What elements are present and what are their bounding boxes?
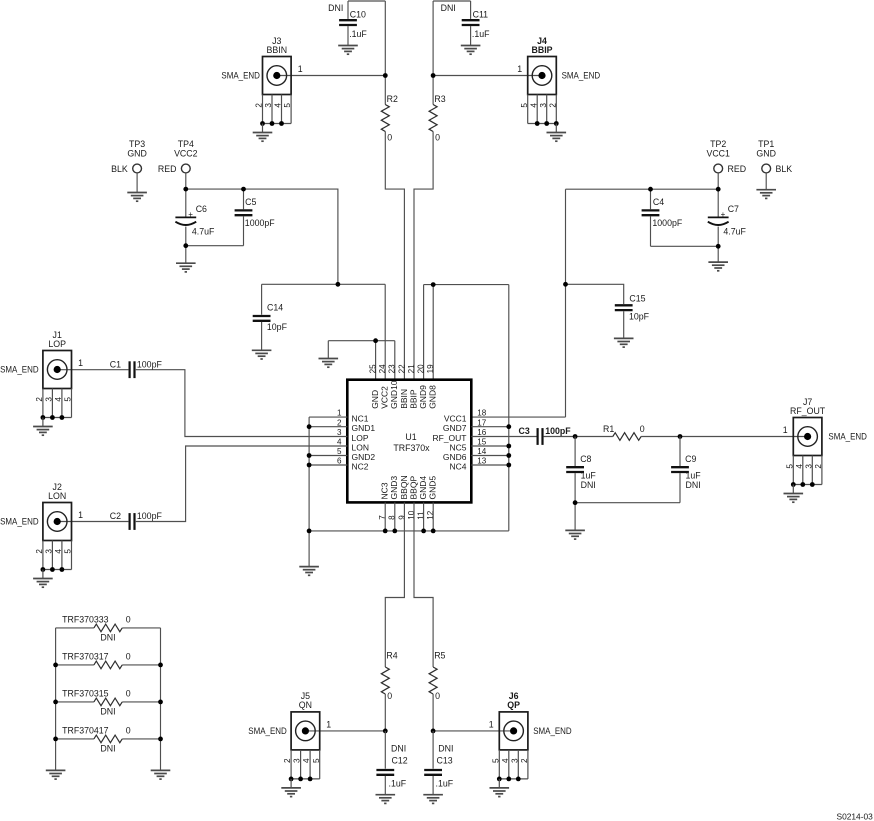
svg-text:BBQN: BBQN	[399, 475, 409, 499]
svg-text:4: 4	[795, 464, 804, 469]
svg-text:5: 5	[64, 549, 73, 554]
svg-text:2: 2	[35, 397, 44, 402]
svg-text:4.7uF: 4.7uF	[723, 226, 746, 236]
resistor TRF370317 (0 ohm)	[56, 652, 161, 669]
resistor TRF370315 (0 ohm DNI)	[56, 689, 161, 717]
connector J1 (LOP SMA)	[0, 330, 83, 435]
svg-text:C3: C3	[519, 426, 530, 436]
wire net BBIP	[433, 0, 471, 2]
svg-text:BBIN: BBIN	[267, 45, 288, 55]
wire GND pins 19,20	[424, 284, 509, 286]
wire C8/C9 to ground	[575, 502, 680, 504]
svg-text:RED: RED	[728, 164, 747, 174]
svg-text:DNI: DNI	[100, 706, 115, 716]
capacitor C9 (1uF DNI)	[671, 437, 701, 503]
svg-text:QP: QP	[507, 700, 520, 710]
svg-text:1: 1	[337, 409, 342, 418]
svg-text:2: 2	[255, 103, 264, 108]
svg-text:0: 0	[387, 133, 392, 143]
svg-text:C12: C12	[392, 756, 408, 766]
svg-text:23: 23	[388, 364, 397, 374]
svg-text:1uF: 1uF	[581, 471, 597, 481]
svg-text:+: +	[721, 210, 726, 219]
svg-text:RF_OUT: RF_OUT	[433, 433, 467, 443]
svg-text:5: 5	[785, 464, 794, 469]
wire resistor bank rails	[55, 628, 57, 770]
wire net LON	[57, 521, 128, 523]
svg-text:4: 4	[54, 397, 63, 402]
svg-text:C4: C4	[653, 197, 664, 207]
svg-text:.1uF: .1uF	[349, 29, 367, 39]
junction pin19	[431, 282, 436, 287]
junction pin25	[373, 338, 378, 343]
wire net VCC2	[185, 173, 187, 189]
svg-text:4: 4	[337, 438, 342, 447]
connector J3 (BBIN SMA)	[221, 36, 302, 141]
svg-text:RF_OUT: RF_OUT	[790, 406, 826, 416]
svg-text:1: 1	[783, 425, 788, 435]
svg-text:DNI: DNI	[441, 3, 456, 13]
svg-text:20: 20	[417, 364, 426, 374]
svg-text:NC4: NC4	[449, 461, 466, 471]
svg-text:1: 1	[298, 64, 303, 74]
wire net LOP	[57, 369, 128, 371]
resistor R2	[381, 94, 398, 142]
svg-text:SMA_END: SMA_END	[0, 365, 39, 375]
svg-text:5: 5	[283, 103, 292, 108]
capacitor C1 (100pF)	[110, 359, 163, 378]
junction node QP	[431, 729, 436, 734]
svg-text:BBQP: BBQP	[408, 476, 418, 500]
svg-text:0: 0	[126, 615, 131, 625]
svg-text:2: 2	[283, 758, 292, 763]
svg-text:VCC2: VCC2	[174, 148, 198, 158]
capacitor C10	[328, 1, 367, 45]
svg-text:2: 2	[337, 418, 342, 427]
svg-text:GND1: GND1	[352, 423, 376, 433]
wire net RF_OUT	[471, 436, 536, 438]
svg-text:1000pF: 1000pF	[245, 218, 275, 228]
svg-text:0: 0	[640, 424, 645, 434]
svg-text:DNI: DNI	[328, 3, 343, 13]
svg-text:5: 5	[520, 103, 529, 108]
resistor TRF370417 (0 ohm DNI)	[56, 726, 161, 754]
svg-text:2: 2	[520, 758, 529, 763]
svg-text:VCC2: VCC2	[380, 386, 390, 409]
svg-text:24: 24	[378, 364, 387, 374]
svg-text:TRF370x: TRF370x	[393, 443, 430, 453]
svg-text:18: 18	[477, 409, 487, 418]
svg-text:2: 2	[35, 549, 44, 554]
svg-text:100pF: 100pF	[137, 511, 163, 521]
svg-text:GND10: GND10	[389, 380, 399, 409]
svg-text:GND: GND	[127, 148, 147, 158]
svg-text:0: 0	[435, 133, 440, 143]
svg-text:DNI: DNI	[100, 743, 115, 753]
svg-text:SMA_END: SMA_END	[562, 71, 601, 81]
svg-text:DNI: DNI	[391, 744, 406, 754]
ground below bank left rail	[46, 770, 66, 779]
ground below C14	[252, 350, 272, 359]
svg-text:TRF370315: TRF370315	[62, 689, 109, 699]
svg-text:.1uF: .1uF	[389, 779, 407, 789]
capacitor C12 (.1uF DNI)	[376, 731, 407, 795]
ground below C13	[423, 795, 443, 804]
svg-text:3: 3	[510, 758, 519, 763]
junctions chip ground rails	[307, 424, 312, 429]
resistor TRF370333 (0 ohm DNI)	[56, 615, 161, 643]
ground below left rail	[299, 567, 319, 576]
svg-text:BBIP: BBIP	[531, 45, 552, 55]
wire chip ground rails (pins 1,2,5,6,7,8,11,12,13,14,15,17)	[308, 417, 310, 531]
junctions net RF_OUT	[573, 434, 578, 439]
svg-text:BLK: BLK	[111, 164, 128, 174]
capacitor C4 (1000pF)	[642, 197, 683, 246]
svg-text:0: 0	[435, 691, 440, 701]
svg-text:22: 22	[397, 364, 406, 374]
capacitor C5 (1000pF)	[235, 197, 276, 246]
ground below pin25/23 wire	[319, 359, 339, 368]
svg-text:4: 4	[54, 549, 63, 554]
svg-text:QN: QN	[299, 700, 312, 710]
svg-text:C13: C13	[437, 756, 453, 766]
ground below C6	[176, 263, 196, 272]
svg-text:.1uF: .1uF	[436, 779, 454, 789]
svg-text:SMA_END: SMA_END	[248, 726, 287, 736]
svg-text:5: 5	[337, 447, 342, 456]
svg-text:C10: C10	[350, 9, 366, 19]
junction C6 gnd	[183, 243, 188, 248]
svg-text:4: 4	[302, 758, 311, 763]
svg-text:3: 3	[337, 428, 342, 437]
junction node BBIP	[431, 73, 436, 78]
svg-text:5: 5	[312, 758, 321, 763]
svg-text:.1uF: .1uF	[472, 29, 490, 39]
svg-text:LON: LON	[352, 442, 369, 452]
svg-text:R3: R3	[434, 94, 445, 104]
svg-text:C1: C1	[110, 359, 121, 369]
svg-text:1: 1	[78, 510, 83, 520]
svg-text:25: 25	[369, 364, 378, 374]
ground below C7	[708, 262, 728, 271]
wire GND pins 25,23	[328, 340, 395, 342]
connector J6 (QP SMA)	[489, 691, 572, 796]
capacitor C7 (4.7uF polarized)	[708, 204, 747, 246]
svg-text:1: 1	[517, 64, 522, 74]
svg-text:0: 0	[126, 689, 131, 699]
capacitor C8 (1uF DNI)	[566, 437, 596, 503]
svg-text:SMA_END: SMA_END	[0, 517, 39, 527]
svg-text:10pF: 10pF	[629, 312, 650, 322]
svg-text:5: 5	[491, 758, 500, 763]
capacitor C6 (4.7uF polarized)	[175, 204, 215, 246]
svg-text:GND: GND	[370, 390, 380, 409]
svg-text:GND3: GND3	[389, 476, 399, 500]
svg-text:TRF370417: TRF370417	[62, 726, 109, 736]
ground below C12	[376, 795, 396, 804]
svg-text:15: 15	[477, 438, 487, 447]
ground below C10	[338, 46, 358, 55]
wire C6/C5 to ground	[186, 245, 244, 247]
resistor R4 (0 ohm)	[381, 651, 397, 702]
svg-text:C14: C14	[267, 303, 283, 313]
svg-text:1000pF: 1000pF	[652, 218, 682, 228]
svg-text:NC5: NC5	[449, 442, 466, 452]
svg-text:+: +	[188, 210, 193, 219]
svg-text:1uF: 1uF	[686, 471, 702, 481]
connector J5 (QN SMA)	[248, 691, 331, 796]
svg-text:GND4: GND4	[418, 476, 428, 500]
svg-text:5: 5	[64, 397, 73, 402]
test point TP3 GND	[111, 139, 147, 192]
connector J4 (BBIP SMA)	[517, 36, 600, 141]
svg-text:LON: LON	[48, 491, 66, 501]
svg-text:U1: U1	[405, 432, 416, 442]
svg-text:100pF: 100pF	[545, 426, 571, 436]
svg-text:2: 2	[548, 103, 557, 108]
svg-text:GND9: GND9	[418, 385, 428, 409]
ground below TP1	[756, 190, 776, 199]
svg-text:VCC1: VCC1	[706, 148, 730, 158]
svg-text:BLK: BLK	[776, 164, 793, 174]
capacitor C14 (10pF)	[253, 284, 288, 350]
svg-text:21: 21	[407, 364, 416, 374]
svg-text:GND6: GND6	[443, 452, 467, 462]
junctions net VCC1	[648, 187, 653, 192]
svg-text:C15: C15	[629, 294, 645, 304]
svg-text:4: 4	[501, 758, 510, 763]
svg-text:C5: C5	[245, 197, 256, 207]
svg-text:GND2: GND2	[352, 452, 376, 462]
svg-text:DNI: DNI	[100, 632, 115, 642]
capacitor C2 (100pF)	[110, 511, 163, 530]
svg-text:TRF370333: TRF370333	[62, 615, 109, 625]
svg-text:14: 14	[477, 447, 487, 456]
capacitor C15 (10pF)	[615, 294, 650, 339]
svg-text:SMA_END: SMA_END	[533, 726, 572, 736]
test point TP2 VCC1	[706, 139, 746, 174]
svg-text:100pF: 100pF	[137, 359, 163, 369]
svg-text:13: 13	[477, 457, 487, 466]
capacitor C13 (.1uF DNI)	[424, 731, 454, 795]
svg-text:0: 0	[126, 652, 131, 662]
svg-text:NC1: NC1	[352, 414, 369, 424]
svg-text:3: 3	[45, 397, 54, 402]
capacitor C11	[441, 1, 490, 45]
ground below C11	[461, 46, 481, 55]
junction C8 gnd	[573, 500, 578, 505]
svg-text:C6: C6	[196, 204, 207, 214]
svg-text:3: 3	[293, 758, 302, 763]
svg-text:3: 3	[264, 103, 273, 108]
junctions resistor bank	[53, 663, 58, 668]
wire net BBQP	[414, 502, 433, 667]
junctions net VCC2	[183, 187, 188, 192]
svg-text:R4: R4	[386, 651, 397, 661]
test point TP4 VCC2	[158, 139, 198, 174]
junction node QN	[383, 729, 388, 734]
capacitor C3 (100pF)	[519, 426, 572, 445]
svg-text:BBIP: BBIP	[408, 389, 418, 409]
svg-text:BBIN: BBIN	[399, 389, 409, 409]
svg-text:SMA_END: SMA_END	[828, 432, 867, 442]
resistor R5 (0 ohm)	[429, 651, 445, 702]
svg-text:LOP: LOP	[48, 339, 66, 349]
svg-text:GND7: GND7	[443, 423, 467, 433]
svg-text:0: 0	[387, 691, 392, 701]
ground below C8	[565, 530, 585, 539]
svg-text:6: 6	[337, 457, 342, 466]
svg-text:19: 19	[426, 364, 435, 374]
svg-text:DNI: DNI	[686, 480, 701, 490]
ground below C15	[614, 338, 634, 347]
svg-text:0: 0	[126, 726, 131, 736]
svg-text:LOP: LOP	[352, 433, 369, 443]
svg-text:C7: C7	[728, 204, 739, 214]
IC U1 TRF370x quadrature modulator	[337, 364, 487, 520]
ground below bank right rail	[151, 770, 171, 779]
svg-text:R5: R5	[434, 651, 445, 661]
svg-text:4: 4	[529, 103, 538, 108]
svg-text:VCC1: VCC1	[444, 414, 467, 424]
svg-text:GND: GND	[756, 148, 776, 158]
svg-text:1: 1	[489, 719, 494, 729]
ground below TP3	[127, 193, 147, 202]
resistor R3	[429, 94, 446, 142]
svg-text:1: 1	[78, 358, 83, 368]
svg-text:C8: C8	[580, 454, 591, 464]
svg-text:C2: C2	[110, 511, 121, 521]
wire net BBIN	[348, 0, 385, 2]
resistor R1 (0 ohm)	[603, 424, 645, 441]
svg-text:NC3: NC3	[380, 482, 390, 499]
svg-text:RED: RED	[158, 164, 177, 174]
svg-text:3: 3	[45, 549, 54, 554]
svg-text:DNI: DNI	[581, 480, 596, 490]
svg-text:SMA_END: SMA_END	[221, 71, 260, 81]
connector J7 (RF_OUT SMA)	[783, 397, 867, 502]
svg-text:17: 17	[477, 418, 487, 427]
svg-text:4.7uF: 4.7uF	[192, 226, 215, 236]
connector J2 (LON SMA)	[0, 482, 83, 587]
junction C7 gnd	[716, 244, 721, 249]
svg-text:C9: C9	[685, 454, 696, 464]
svg-text:R2: R2	[387, 94, 398, 104]
junction node BBIN	[383, 73, 388, 78]
svg-text:R1: R1	[603, 424, 614, 434]
wire C4/C7 to ground	[651, 245, 719, 247]
svg-text:NC2: NC2	[352, 461, 369, 471]
svg-text:TRF370317: TRF370317	[62, 652, 109, 662]
svg-text:3: 3	[804, 464, 813, 469]
svg-text:GND8: GND8	[428, 385, 438, 409]
svg-text:3: 3	[539, 103, 548, 108]
svg-text:GND5: GND5	[428, 476, 438, 500]
svg-text:DNI: DNI	[438, 744, 453, 754]
svg-text:10pF: 10pF	[267, 322, 288, 332]
svg-text:16: 16	[477, 428, 487, 437]
svg-text:C11: C11	[473, 9, 489, 19]
wire net BBQN	[385, 502, 404, 667]
svg-text:S0214-03: S0214-03	[837, 811, 874, 821]
test point TP1 GND	[756, 139, 792, 189]
svg-text:4: 4	[274, 103, 283, 108]
wire net VCC1	[717, 173, 719, 189]
svg-text:1: 1	[326, 719, 331, 729]
svg-text:2: 2	[814, 464, 823, 469]
